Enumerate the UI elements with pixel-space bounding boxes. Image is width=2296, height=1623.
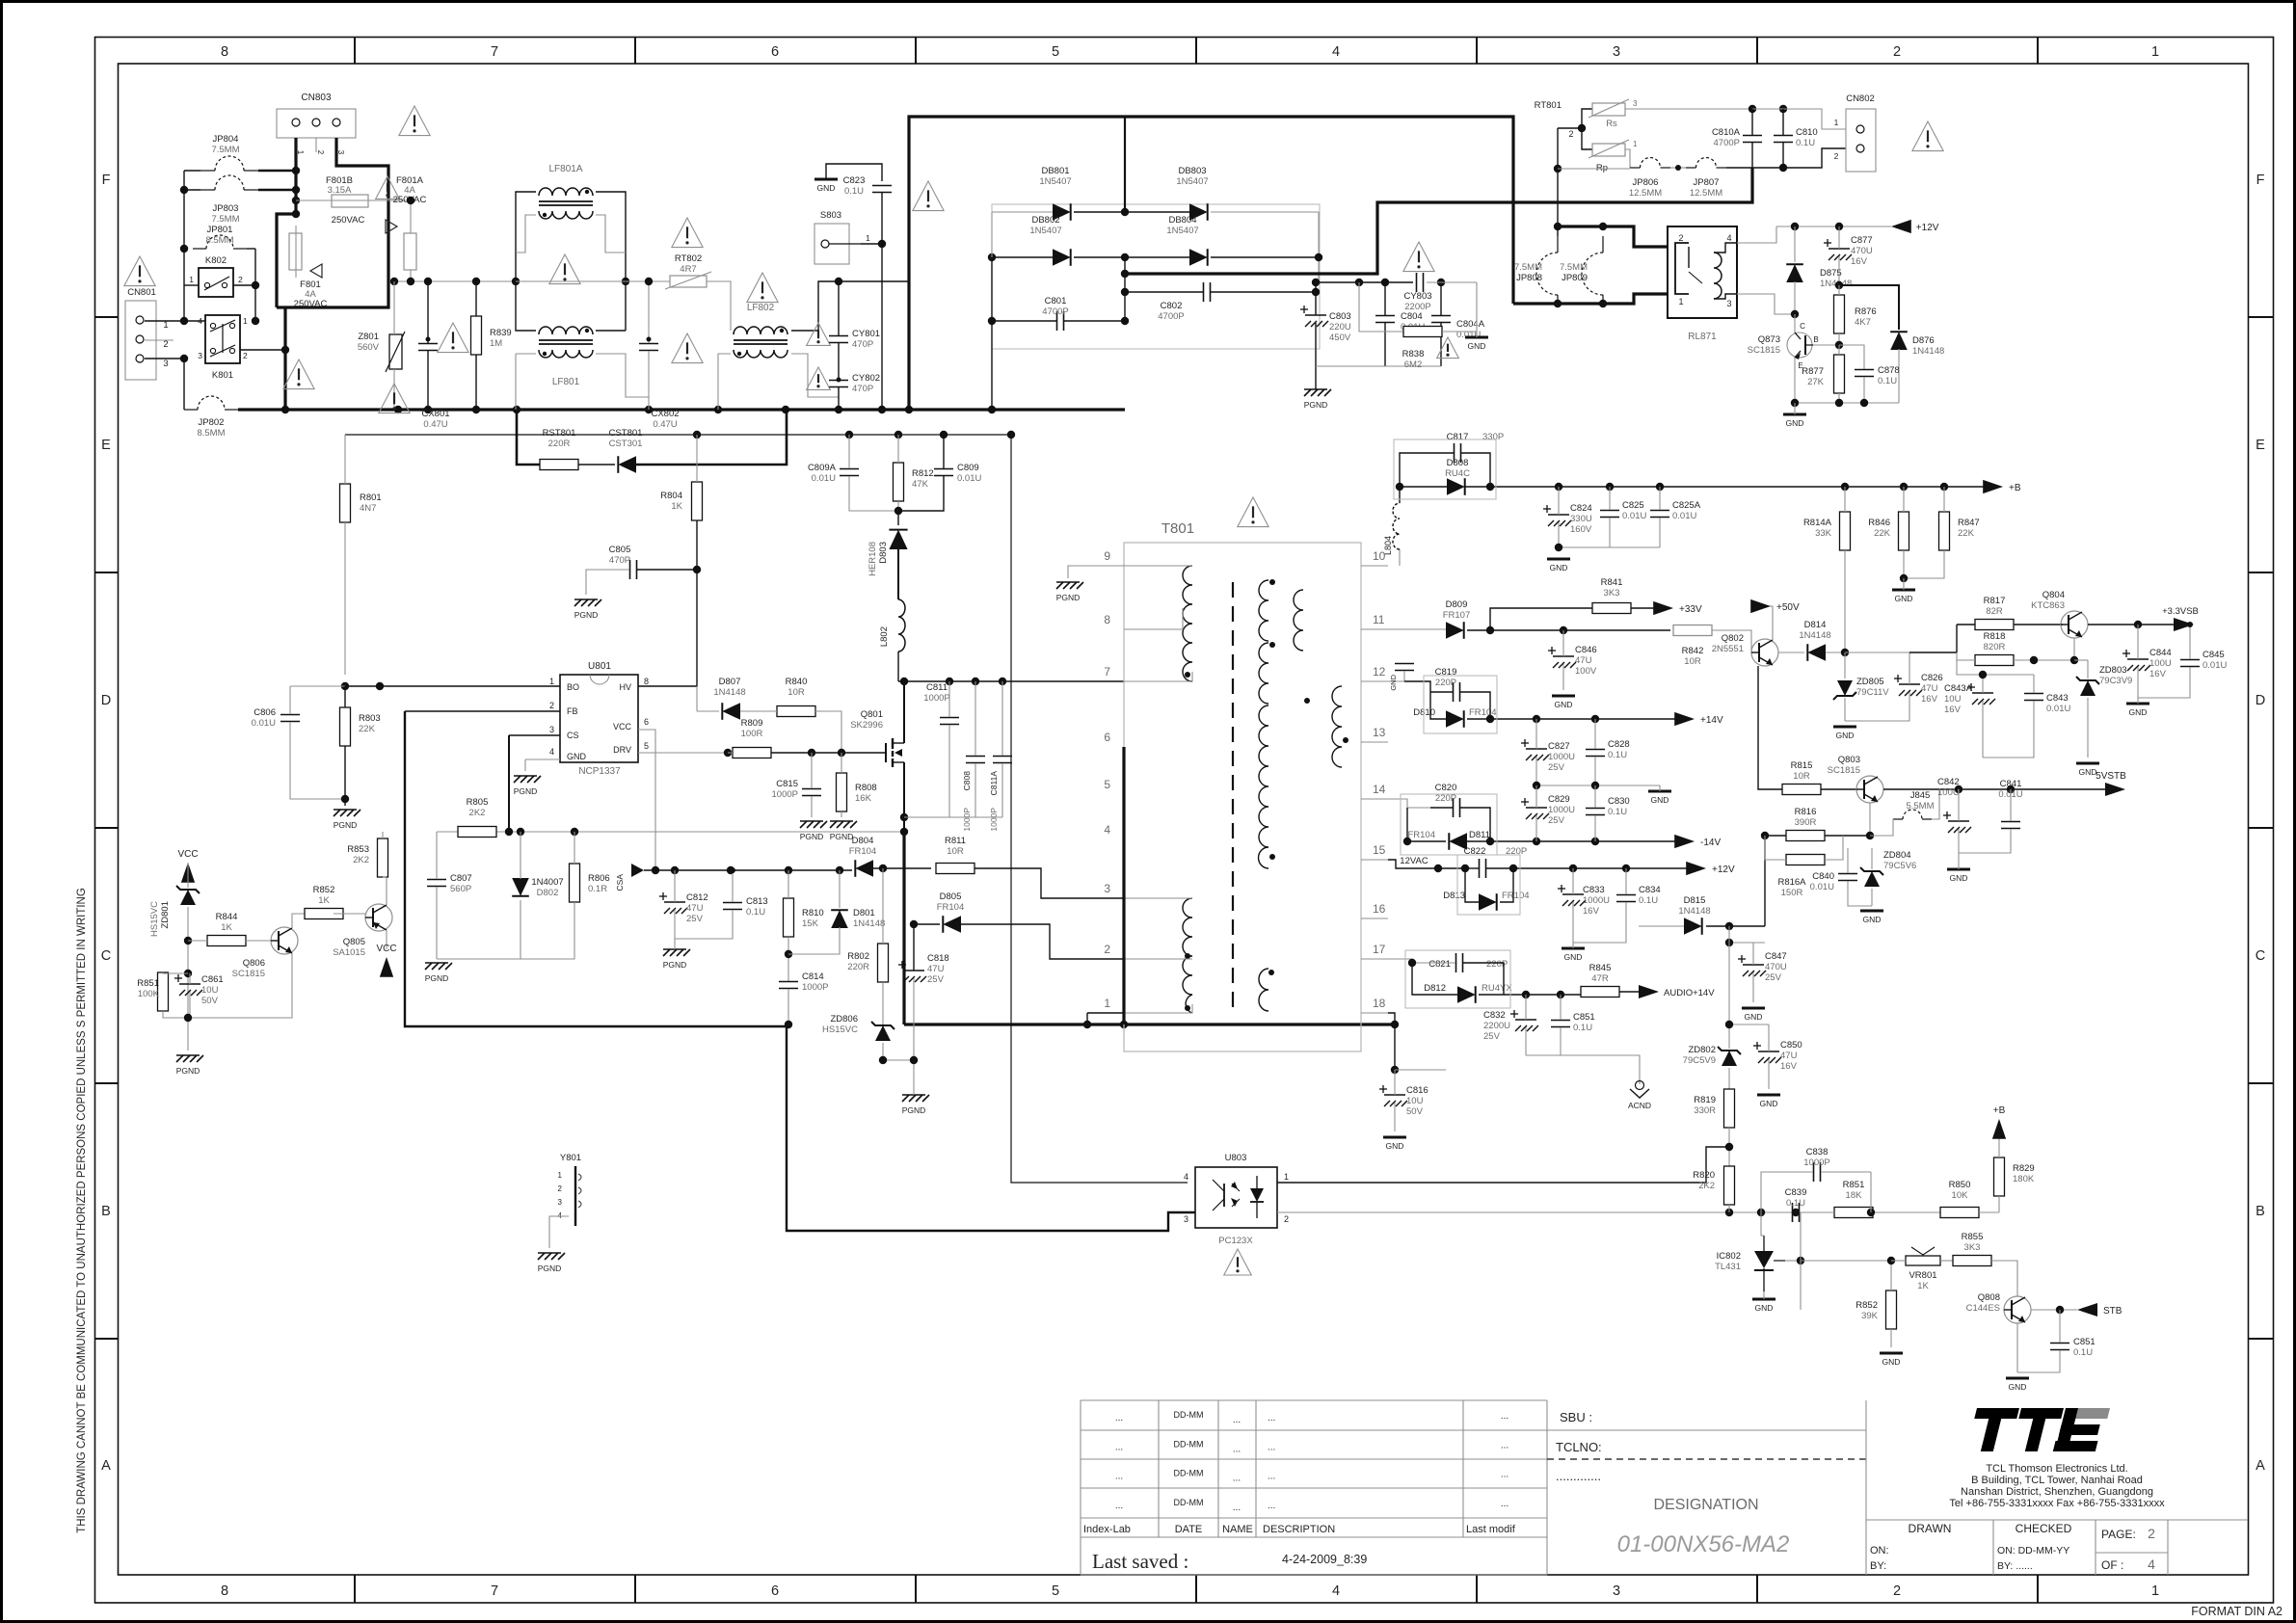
svg-text:GND: GND — [1651, 795, 1669, 805]
junction — [1121, 270, 1129, 278]
grid column ticks — [355, 38, 2038, 1604]
junction — [252, 281, 259, 289]
svg-text:16V: 16V — [1583, 906, 1600, 917]
junction — [1835, 223, 1843, 230]
wire — [475, 281, 477, 316]
junction — [390, 278, 398, 285]
svg-text:1N4148: 1N4148 — [713, 687, 745, 698]
svg-text:450V: 450V — [1329, 333, 1351, 343]
svg-text:39K: 39K — [1861, 1311, 1879, 1321]
svg-text:560P: 560P — [450, 884, 471, 894]
svg-text:R877: R877 — [1802, 366, 1824, 377]
wire — [1838, 345, 1840, 355]
resistor R804 1K — [660, 482, 702, 520]
svg-text:180K: 180K — [2013, 1174, 2035, 1184]
svg-text:DB804: DB804 — [1168, 215, 1196, 226]
svg-text:FR104: FR104 — [849, 846, 877, 857]
svg-text:4: 4 — [549, 747, 554, 757]
wire — [1758, 606, 1773, 640]
svg-text:...: ... — [1501, 1440, 1508, 1450]
wire — [246, 940, 271, 942]
transistor Q805 SA1015 — [333, 904, 392, 958]
svg-text:16K: 16K — [855, 793, 872, 804]
svg-text:GND: GND — [2079, 767, 2097, 777]
wire — [1361, 628, 1388, 630]
junction — [1554, 165, 1562, 173]
svg-text:HS15VC: HS15VC — [822, 1024, 858, 1035]
diode D814 1N4148 — [1799, 620, 1830, 661]
svg-text:+50V: +50V — [1776, 602, 1800, 613]
wire — [897, 511, 899, 525]
svg-text:D803: D803 — [878, 542, 889, 564]
junction — [2134, 621, 2142, 628]
svg-text:R839: R839 — [490, 328, 512, 338]
filter LF801A — [539, 164, 593, 219]
wire — [674, 939, 676, 949]
svg-text:79C5V6: 79C5V6 — [1883, 861, 1916, 871]
wire — [344, 686, 346, 707]
wire — [2031, 1309, 2077, 1311]
wire — [1890, 1329, 1892, 1347]
capacitor C807 560P — [427, 873, 472, 894]
svg-text:D876: D876 — [1912, 335, 1935, 346]
junction — [845, 431, 853, 439]
wire — [238, 408, 1125, 411]
svg-text:1N4148: 1N4148 — [853, 918, 885, 929]
capacitor C834 0.1U — [1616, 885, 1661, 906]
wire — [187, 863, 189, 888]
svg-text:6M2: 6M2 — [1404, 359, 1422, 370]
capacitor CY802 — [829, 373, 880, 394]
svg-text:250VAC: 250VAC — [332, 215, 365, 226]
svg-text:3: 3 — [163, 359, 168, 369]
svg-text:THIS DRAWING CANNOT BE COMMUNI: THIS DRAWING CANNOT BE COMMUNICATED TO U… — [76, 888, 88, 1533]
wire — [1388, 860, 1465, 868]
wire — [516, 281, 536, 331]
wire — [851, 868, 853, 870]
wire — [1729, 1024, 1769, 1025]
svg-text:C843: C843 — [2046, 693, 2069, 704]
wire — [292, 914, 314, 928]
svg-text:HV: HV — [619, 682, 631, 692]
wire — [283, 307, 286, 410]
junction — [693, 566, 701, 573]
wire — [848, 435, 850, 468]
wire — [1407, 808, 1446, 841]
diode D808 RU4C — [1445, 458, 1470, 495]
wire — [1983, 701, 2034, 758]
svg-text:0.01U: 0.01U — [1672, 511, 1696, 521]
wire — [1559, 546, 1660, 548]
svg-text:18K: 18K — [1846, 1190, 1863, 1201]
wire — [1751, 143, 1753, 168]
wire — [1813, 344, 1839, 346]
svg-text:C851: C851 — [2073, 1337, 2096, 1347]
svg-text:R820: R820 — [1693, 1170, 1715, 1181]
wire — [1277, 1211, 1960, 1213]
svg-text:4: 4 — [1726, 233, 1731, 243]
svg-text:220R: 220R — [548, 439, 571, 449]
winding primary 9-7 — [1183, 566, 1192, 681]
resistor R845 47R — [1581, 963, 1619, 998]
junction — [1121, 253, 1129, 261]
svg-text:470P: 470P — [852, 339, 873, 350]
jumper JP803 — [200, 175, 258, 225]
junction — [252, 317, 259, 325]
svg-text:Tel +86-755-3331xxxx Fax +86: Tel +86-755-3331xxxx Fax +86-755-3331xxx… — [1949, 1498, 2165, 1509]
wire — [1573, 902, 1626, 943]
svg-text:1M: 1M — [490, 338, 502, 349]
wire — [1440, 282, 1442, 315]
svg-text:BY: ......: BY: ...... — [1997, 1560, 2033, 1572]
power rail -14V — [1674, 835, 1721, 848]
capacitor C851 0.1U — [1551, 1012, 1595, 1033]
junction — [1120, 1021, 1128, 1028]
svg-text:D: D — [2256, 693, 2265, 708]
svg-text:79C3V9: 79C3V9 — [2099, 676, 2132, 686]
svg-text:1000P: 1000P — [802, 982, 828, 993]
wire — [1712, 630, 1751, 652]
relay RL871 — [1668, 226, 1737, 342]
wire — [2088, 624, 2174, 625]
wire — [1639, 925, 1684, 927]
svg-text:12: 12 — [1373, 665, 1386, 678]
junction — [1121, 317, 1129, 325]
junction — [900, 828, 908, 836]
wire — [1535, 785, 1537, 808]
svg-text:ACND: ACND — [1628, 1101, 1651, 1110]
svg-text:BY:: BY: — [1870, 1560, 1886, 1572]
svg-text:0.1R: 0.1R — [588, 884, 607, 894]
wire — [1752, 972, 1754, 1002]
wire — [1124, 257, 1126, 321]
svg-text:SC1815: SC1815 — [1828, 765, 1860, 776]
wire — [1560, 995, 1562, 1020]
junction — [693, 431, 701, 439]
wire — [344, 799, 346, 806]
junction — [1121, 288, 1129, 296]
wire — [1706, 925, 1765, 927]
junction — [835, 278, 842, 285]
svg-text:R876: R876 — [1855, 306, 1877, 317]
wire — [626, 280, 670, 282]
svg-text:+33V: +33V — [1679, 604, 1702, 615]
wire — [258, 170, 296, 172]
svg-text:22K: 22K — [359, 724, 376, 734]
svg-text:RU4C: RU4C — [1445, 468, 1470, 479]
wire — [549, 1216, 569, 1248]
wire — [897, 435, 899, 463]
junction — [785, 866, 792, 874]
jumper J845 5.5MM — [1893, 790, 1935, 819]
svg-text:R850: R850 — [1949, 1180, 1971, 1190]
enclosure D812 pair — [1405, 950, 1510, 1008]
svg-text:R817: R817 — [1984, 596, 2006, 606]
junction — [1725, 1021, 1733, 1028]
svg-text:2: 2 — [1568, 129, 1573, 139]
junction — [1533, 715, 1540, 723]
svg-text:...: ... — [1268, 1472, 1275, 1482]
junction — [1835, 281, 1843, 289]
svg-text:160V: 160V — [1570, 524, 1592, 535]
capacitor C820 220P — [1435, 783, 1460, 817]
relay K802 — [189, 255, 243, 297]
wire — [1001, 763, 1003, 817]
svg-text:Nanshan District, Shenzhen, Gu: Nanshan District, Shenzhen, Guangdong — [1961, 1486, 2153, 1498]
wire — [991, 257, 993, 410]
svg-text:2K2: 2K2 — [1698, 1181, 1715, 1191]
ground GND — [1562, 948, 1585, 962]
svg-text:PGND: PGND — [902, 1105, 926, 1115]
TTE logo — [1966, 1408, 2110, 1451]
junction — [894, 507, 902, 515]
wire — [1557, 128, 1559, 226]
capacitor C838 1000P — [1803, 1147, 1829, 1182]
wire — [1625, 868, 1627, 894]
svg-text:ZD806: ZD806 — [830, 1014, 858, 1024]
switch S803 — [814, 210, 870, 264]
diode DB803 1N5407 — [1176, 166, 1208, 221]
winding secondary 12-13 — [1294, 590, 1348, 767]
svg-text:GND: GND — [1786, 418, 1804, 428]
svg-text:100U: 100U — [2149, 658, 2172, 669]
wire — [1467, 629, 1670, 631]
wire — [258, 189, 296, 191]
svg-text:7.5MM: 7.5MM — [1560, 262, 1588, 273]
svg-text:VCC: VCC — [376, 944, 396, 954]
svg-text:0.1U: 0.1U — [746, 907, 765, 918]
resistor R816 390R — [1786, 807, 1825, 841]
svg-text:...: ... — [1115, 1501, 1123, 1511]
capacitor C813 0.1U — [723, 896, 768, 918]
wire — [1871, 848, 1873, 869]
wire — [1361, 798, 1388, 800]
svg-text:C838: C838 — [1806, 1147, 1829, 1157]
junction — [1860, 399, 1868, 407]
wire — [344, 746, 346, 799]
svg-text:K802: K802 — [205, 255, 227, 266]
resistor R808 16K — [837, 773, 877, 811]
svg-text:1N5407: 1N5407 — [1039, 176, 1071, 187]
wire — [1400, 487, 1447, 503]
svg-text:18: 18 — [1373, 997, 1386, 1010]
resistor R817 82R — [1975, 596, 2014, 630]
wire — [625, 281, 627, 331]
wire — [638, 675, 697, 687]
jumper JP802 — [184, 396, 238, 439]
junction — [730, 867, 735, 873]
wire — [1659, 785, 1661, 791]
svg-text:GND: GND — [1755, 1303, 1774, 1313]
junction — [1725, 1209, 1733, 1216]
capacitor C845 0.01U — [2180, 650, 2227, 671]
svg-text:D801: D801 — [853, 908, 875, 918]
wire — [1794, 226, 1796, 262]
junction — [838, 749, 845, 757]
wire — [386, 877, 387, 905]
svg-text:R840: R840 — [786, 677, 808, 687]
svg-text:GND: GND — [1760, 1099, 1778, 1108]
wire — [1525, 995, 1527, 1020]
ground GND — [1648, 791, 1671, 805]
wire — [516, 280, 626, 282]
svg-text:K801: K801 — [212, 370, 233, 381]
wire — [1467, 718, 1682, 720]
wire — [405, 710, 560, 712]
wire — [2016, 1323, 2018, 1372]
svg-text:C845: C845 — [2203, 650, 2225, 660]
capacitor C833 1000U 16V — [1558, 885, 1610, 917]
resistor R847 22K — [1939, 512, 1980, 550]
svg-text:R815: R815 — [1791, 760, 1813, 771]
junction — [407, 278, 414, 285]
capacitor C815 1000P — [772, 779, 821, 800]
svg-text:FORMAT DIN A2: FORMAT DIN A2 — [2191, 1605, 2283, 1618]
capacitor C814 1000P — [779, 971, 828, 993]
svg-text:DB803: DB803 — [1178, 166, 1206, 176]
wire — [914, 923, 940, 925]
resistor R829 180K — [1994, 1157, 2035, 1196]
svg-text:GND: GND — [1389, 674, 1398, 690]
warning symbol — [1224, 1249, 1252, 1275]
capacitor C877 470U 16V — [1824, 235, 1873, 267]
wire — [1825, 836, 1843, 860]
junction — [1725, 922, 1733, 930]
wire — [410, 200, 412, 233]
power rail +B — [1992, 1105, 2006, 1139]
svg-text:220P: 220P — [1435, 678, 1456, 688]
svg-text:E: E — [101, 438, 111, 453]
wire — [1794, 403, 1796, 414]
capacitor C808 1000P — [962, 757, 985, 832]
svg-text:C815: C815 — [776, 779, 798, 789]
svg-text:1: 1 — [2151, 44, 2159, 60]
junction — [1522, 991, 1530, 998]
ground GND — [1465, 337, 1488, 351]
svg-text:C811: C811 — [926, 682, 948, 693]
svg-text:CN802: CN802 — [1846, 93, 1875, 104]
capacitor C828 0.1U — [1586, 739, 1630, 760]
svg-text:100K: 100K — [138, 989, 160, 999]
wire — [1526, 1055, 1640, 1084]
wire — [904, 816, 1002, 818]
wire — [788, 937, 789, 981]
wire — [1751, 109, 1753, 135]
svg-text:R844: R844 — [216, 912, 238, 922]
svg-text:CY801: CY801 — [852, 329, 880, 339]
svg-text:KTC863: KTC863 — [2031, 600, 2065, 611]
wire — [1572, 868, 1574, 894]
wire — [578, 464, 615, 466]
wire — [277, 138, 296, 307]
svg-text:0.01U: 0.01U — [2046, 704, 2070, 714]
svg-text:C844: C844 — [2149, 648, 2172, 658]
svg-text:0.1U: 0.1U — [1573, 1023, 1592, 1033]
svg-text:D815: D815 — [1684, 895, 1706, 906]
wire — [1465, 486, 1490, 488]
capacitor C810A 4700P — [1712, 127, 1762, 148]
wire — [873, 867, 931, 869]
wire — [707, 281, 731, 331]
net arrow — [310, 264, 322, 278]
junction — [1533, 782, 1540, 789]
svg-text:+12V: +12V — [1712, 865, 1735, 875]
diode CST801 — [609, 428, 643, 473]
warning symbol — [399, 106, 430, 136]
junction — [1887, 1257, 1895, 1264]
wire — [521, 902, 574, 959]
svg-text:2: 2 — [558, 1184, 563, 1193]
wire — [2059, 1310, 2061, 1343]
ground GND — [1757, 1095, 1780, 1108]
svg-text:C804A: C804A — [1456, 319, 1485, 330]
wire — [233, 284, 255, 286]
svg-text:2200P: 2200P — [1404, 302, 1430, 312]
svg-text:PGND: PGND — [1056, 593, 1081, 602]
wire — [961, 924, 1124, 959]
junction — [1757, 1209, 1765, 1216]
svg-text:DESIGNATION: DESIGNATION — [1653, 1497, 1758, 1513]
svg-text:4: 4 — [2148, 1556, 2155, 1572]
svg-text:E: E — [2256, 438, 2265, 453]
wire — [183, 171, 185, 321]
svg-text:TL431: TL431 — [1715, 1262, 1741, 1272]
wire — [1490, 486, 1991, 488]
svg-text:47U: 47U — [1921, 683, 1938, 694]
svg-text:CN801: CN801 — [127, 287, 156, 298]
svg-text:10U: 10U — [1406, 1096, 1424, 1106]
wire — [163, 972, 188, 973]
T801 right pin numbers — [1373, 549, 1386, 1010]
svg-text:13: 13 — [1373, 726, 1386, 739]
wire — [974, 868, 1124, 898]
svg-text:1000U: 1000U — [1548, 805, 1575, 815]
wire — [897, 652, 899, 681]
warning symbol — [672, 218, 703, 248]
svg-text:FR107: FR107 — [1443, 610, 1471, 621]
svg-text:OF :: OF : — [2101, 1558, 2123, 1572]
resistor R806 0.1R — [570, 864, 610, 902]
wire — [839, 870, 841, 908]
capacitor C840 0.01U — [1810, 871, 1857, 892]
svg-text:2K2: 2K2 — [469, 808, 486, 818]
ground GND — [2006, 1378, 2029, 1392]
svg-text:+14V: +14V — [1700, 715, 1723, 726]
svg-text:...: ... — [1501, 1499, 1508, 1509]
svg-text:C829: C829 — [1548, 794, 1570, 805]
junction — [1381, 279, 1389, 286]
wire — [1594, 815, 1596, 841]
svg-text:100R: 100R — [741, 729, 763, 739]
wire — [1821, 1171, 1871, 1173]
capacitor C824 330U 160V — [1543, 503, 1592, 535]
wire — [376, 200, 411, 201]
wire — [1625, 149, 1630, 168]
svg-text:Q802: Q802 — [1722, 633, 1744, 644]
svg-text:R804: R804 — [660, 491, 682, 501]
junction — [946, 678, 953, 685]
warning symbol — [376, 176, 400, 199]
svg-text:1: 1 — [866, 233, 870, 243]
svg-text:R803: R803 — [359, 713, 381, 724]
svg-text:6: 6 — [771, 44, 779, 60]
svg-text:R851: R851 — [1843, 1180, 1865, 1190]
svg-text:A: A — [101, 1458, 111, 1474]
ground PGND — [1056, 582, 1083, 602]
junction — [1486, 838, 1494, 845]
jumper JP806 — [1629, 158, 1670, 200]
svg-text:DD-MM: DD-MM — [1174, 1410, 1204, 1420]
